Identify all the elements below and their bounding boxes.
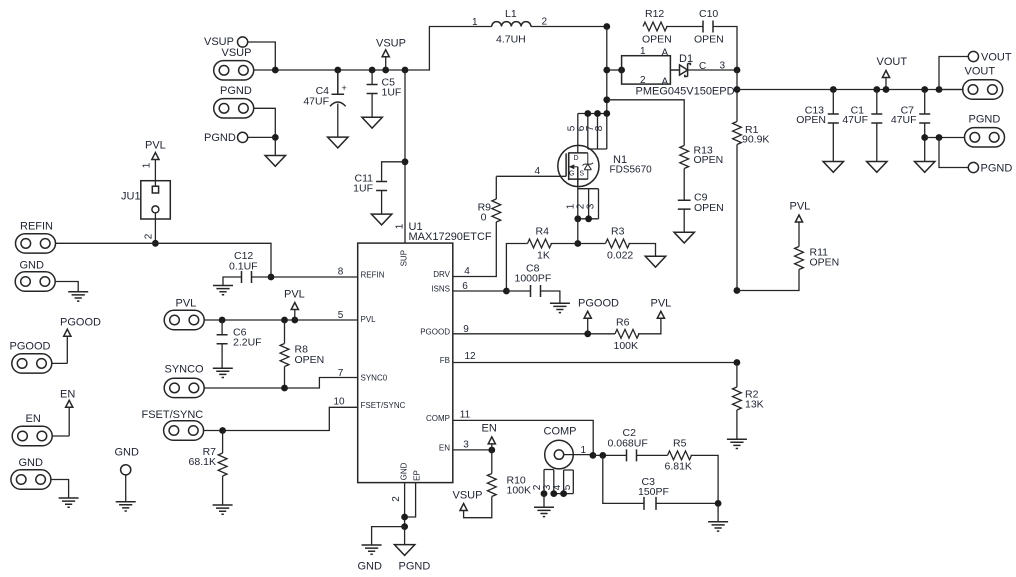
svg-text:0.022: 0.022 bbox=[607, 250, 633, 262]
connector EN (2-pin) bbox=[12, 426, 52, 445]
wire EN net bbox=[453, 449, 492, 451]
junction PGND bbox=[272, 134, 279, 141]
svg-text:ISNS: ISNS bbox=[431, 285, 450, 294]
junction C13 tap bbox=[830, 86, 837, 93]
wire COMP TP pin1 bbox=[564, 454, 593, 456]
svg-text:PGND: PGND bbox=[981, 163, 1013, 175]
wire VOUT rail bbox=[737, 89, 964, 91]
junction JU1 on REFIN bbox=[152, 240, 159, 247]
capacitor C12 bbox=[223, 271, 271, 286]
wire VSUP pin to rail bbox=[248, 42, 276, 70]
svg-text:90.9K: 90.9K bbox=[742, 134, 769, 146]
svg-text:12: 12 bbox=[464, 351, 476, 362]
wire R4 to sense node bbox=[551, 243, 606, 245]
ground C7 bbox=[915, 162, 935, 173]
junction PGOOD arrow tap bbox=[584, 330, 591, 337]
svg-text:EN: EN bbox=[26, 413, 41, 425]
wire PGOOD net bbox=[453, 333, 615, 335]
junction N1 pin2 bbox=[585, 215, 592, 222]
svg-text:OPEN: OPEN bbox=[694, 34, 724, 46]
svg-text:PVL: PVL bbox=[176, 298, 197, 310]
svg-text:1: 1 bbox=[395, 223, 406, 229]
net arrow PVL pin5 bbox=[284, 289, 305, 321]
wire VSUP rail main bbox=[254, 27, 492, 71]
wire JU1 pin2 to REFIN net bbox=[154, 213, 156, 243]
wire C11 to ground bbox=[381, 191, 383, 215]
ground compensation bbox=[708, 522, 728, 531]
svg-text:4: 4 bbox=[535, 166, 541, 177]
junction EP/GND bbox=[401, 514, 408, 521]
junction COMP node a bbox=[590, 452, 597, 459]
junction C4 tap bbox=[334, 67, 341, 74]
svg-text:1: 1 bbox=[142, 162, 153, 168]
svg-text:SYNC0: SYNC0 bbox=[361, 374, 388, 383]
ground GND mid bbox=[116, 502, 136, 511]
svg-text:8: 8 bbox=[594, 125, 605, 131]
ground C11 bbox=[371, 214, 391, 225]
junction VSUP pin tap bbox=[272, 67, 279, 74]
connector VOUT (2-pin) bbox=[963, 80, 1003, 99]
svg-text:GND: GND bbox=[19, 457, 44, 469]
svg-text:1: 1 bbox=[472, 17, 478, 28]
wire to PGND triangle bbox=[404, 527, 406, 545]
junction FB node bbox=[734, 359, 741, 366]
wire R12 to C10 bbox=[666, 26, 703, 28]
wire FSET to R7 bbox=[222, 431, 224, 454]
wire C3 branch bbox=[603, 455, 718, 503]
ground C9 bbox=[674, 232, 694, 243]
svg-text:1: 1 bbox=[581, 445, 587, 456]
junction N1 pin7 bbox=[594, 110, 601, 117]
wire FSET/SYNC net bbox=[204, 407, 358, 430]
svg-text:FDS5670: FDS5670 bbox=[610, 165, 653, 176]
wire C9 to ground bbox=[683, 209, 685, 232]
junction PGND branch on C7 leg bbox=[921, 134, 928, 141]
junction COMP TP gnd c bbox=[560, 490, 567, 497]
capacitor C7 bbox=[919, 90, 930, 162]
net arrow EN left bbox=[52, 389, 75, 437]
svg-text:2: 2 bbox=[391, 496, 402, 502]
junction C3/R5 node bbox=[715, 500, 722, 507]
junction R11 tap bbox=[734, 287, 741, 294]
resistor R9 bbox=[492, 199, 501, 222]
wire to GND earth bbox=[372, 527, 405, 545]
wire R7 to ground bbox=[222, 476, 224, 505]
wire C2 to R5 bbox=[637, 454, 668, 456]
net arrow PVL mid bbox=[651, 298, 672, 319]
resistor R7 bbox=[218, 453, 227, 476]
svg-text:EP: EP bbox=[413, 470, 422, 481]
svg-text:VSUP: VSUP bbox=[376, 38, 406, 50]
svg-text:JU1: JU1 bbox=[121, 191, 141, 203]
capacitor C2 bbox=[627, 449, 637, 461]
svg-text:G: G bbox=[569, 171, 574, 178]
junction COMP TP gnd b bbox=[550, 490, 557, 497]
svg-text:PVL: PVL bbox=[651, 298, 672, 310]
svg-text:OPEN: OPEN bbox=[694, 154, 724, 166]
svg-text:PGND: PGND bbox=[204, 132, 236, 144]
net arrow PVL right bbox=[790, 201, 811, 247]
svg-text:GND: GND bbox=[400, 462, 409, 480]
svg-text:VSUP: VSUP bbox=[453, 490, 483, 502]
svg-text:PGOOD: PGOOD bbox=[578, 298, 619, 310]
wire N1 gate lead bbox=[496, 175, 566, 177]
wire R10 to VSUP arrow bbox=[464, 497, 492, 518]
wire snubber branch bbox=[607, 100, 684, 146]
svg-text:150PF: 150PF bbox=[638, 486, 669, 498]
connector VSUP (2-pin) bbox=[214, 61, 254, 80]
junction N1 pin1 bbox=[574, 215, 581, 222]
svg-text:47UF: 47UF bbox=[891, 114, 917, 126]
svg-text:2: 2 bbox=[144, 233, 155, 239]
capacitor C4 (polarized) bbox=[330, 70, 346, 106]
svg-text:11: 11 bbox=[460, 410, 471, 421]
transistor N1 source pins bbox=[578, 187, 599, 219]
ground C5 bbox=[362, 117, 382, 128]
svg-text:5: 5 bbox=[562, 484, 573, 490]
junction VOUT pin drop bbox=[936, 86, 943, 93]
wire GND pin to ground bbox=[125, 475, 127, 502]
svg-text:S: S bbox=[579, 171, 584, 178]
svg-text:10: 10 bbox=[333, 397, 345, 408]
svg-text:SUP: SUP bbox=[400, 250, 409, 266]
wire EN to R10 bbox=[491, 450, 493, 474]
connector PVL (2-pin) bbox=[164, 310, 204, 329]
wire R8 to SYNCO net bbox=[284, 367, 286, 389]
svg-text:OPEN: OPEN bbox=[295, 354, 325, 366]
net arrow PVL at JU1 bbox=[145, 140, 166, 187]
ground R3 bbox=[645, 256, 665, 267]
junction SW at D1 row bbox=[603, 67, 610, 74]
svg-text:PVL: PVL bbox=[284, 289, 305, 301]
wire R11 to FB node bbox=[737, 270, 799, 291]
svg-text:FSET/SYNC: FSET/SYNC bbox=[361, 401, 406, 410]
resistor R1 bbox=[733, 122, 742, 145]
ground C6 bbox=[213, 368, 233, 377]
svg-text:68.1K: 68.1K bbox=[189, 456, 216, 468]
svg-text:FB: FB bbox=[440, 356, 450, 365]
wire L1 to SW node bbox=[531, 26, 607, 28]
svg-text:GND: GND bbox=[115, 447, 140, 459]
connector SYNCO (2-pin) bbox=[164, 378, 204, 397]
svg-text:R3: R3 bbox=[611, 226, 625, 238]
svg-text:GND: GND bbox=[20, 260, 45, 272]
svg-text:R5: R5 bbox=[673, 438, 687, 450]
wire SW to D1 anode bbox=[607, 69, 622, 71]
svg-text:47UF: 47UF bbox=[303, 96, 329, 108]
svg-text:PGND: PGND bbox=[399, 561, 431, 573]
junction COMP node b bbox=[599, 452, 606, 459]
wire R8 branch bbox=[284, 320, 286, 344]
net arrow PGOOD mid bbox=[578, 298, 619, 334]
junction C6 tap bbox=[219, 317, 226, 324]
svg-text:2.2UF: 2.2UF bbox=[233, 337, 262, 349]
PGND circle pin out bbox=[968, 162, 978, 172]
junction C1 tap bbox=[873, 86, 880, 93]
svg-text:0: 0 bbox=[481, 212, 487, 224]
ground C1 bbox=[867, 162, 887, 173]
ground PGND input bbox=[265, 156, 285, 167]
connector GND upper (2-pin) bbox=[15, 272, 55, 291]
junction EN node bbox=[488, 447, 495, 454]
junction D1 anode bbox=[618, 67, 625, 74]
wire SUP feed vertical bbox=[404, 70, 406, 243]
svg-text:0.1UF: 0.1UF bbox=[229, 261, 258, 273]
svg-text:SYNCO: SYNCO bbox=[165, 364, 205, 376]
inductor L1 bbox=[492, 22, 531, 27]
junction SW node top bbox=[603, 23, 610, 30]
capacitor C9 bbox=[678, 200, 691, 209]
svg-text:REFIN: REFIN bbox=[361, 271, 385, 280]
svg-text:EN: EN bbox=[439, 444, 450, 453]
svg-text:PGOOD: PGOOD bbox=[60, 317, 101, 329]
transistor N1 mosfet symbol bbox=[566, 152, 593, 186]
diode D1 schottky symbol bbox=[670, 64, 690, 77]
svg-text:VOUT: VOUT bbox=[877, 56, 908, 68]
resistor R8 bbox=[280, 344, 289, 367]
junction sense node bbox=[574, 240, 581, 247]
junction SUP drop bbox=[402, 67, 409, 74]
capacitor C10 bbox=[703, 21, 713, 33]
ground COMP TP bbox=[534, 507, 554, 516]
svg-text:COMP: COMP bbox=[426, 414, 450, 423]
COMP test point connector bbox=[545, 440, 574, 469]
resistor R4 bbox=[528, 239, 552, 248]
svg-text:FSET/SYNC: FSET/SYNC bbox=[142, 409, 204, 421]
svg-text:PGOOD: PGOOD bbox=[420, 328, 450, 337]
capacitor C3 bbox=[644, 497, 656, 510]
svg-text:PVL: PVL bbox=[790, 201, 811, 213]
net arrow VSUP bbox=[376, 38, 406, 71]
wire R3 to ground bbox=[629, 244, 656, 257]
wire FB to R2 bbox=[736, 363, 738, 388]
resistor R11 bbox=[795, 247, 804, 270]
wire SYNCO net bbox=[204, 378, 357, 389]
wire PGND pin out bbox=[939, 138, 968, 168]
svg-text:100K: 100K bbox=[614, 340, 639, 352]
ground C12 bbox=[213, 286, 233, 295]
resistor R6 bbox=[615, 329, 639, 338]
wire COMP node bbox=[593, 454, 627, 456]
wire PGND connector to pin bbox=[254, 108, 275, 155]
connector GND lower (2-pin) bbox=[11, 470, 51, 489]
ground GND lower bbox=[59, 498, 79, 507]
svg-text:D: D bbox=[574, 155, 579, 162]
resistor R12 bbox=[643, 22, 667, 31]
svg-text:1UF: 1UF bbox=[353, 183, 373, 195]
wire R2 to ground bbox=[736, 410, 738, 439]
svg-text:100K: 100K bbox=[507, 485, 532, 497]
svg-text:0.068UF: 0.068UF bbox=[608, 438, 648, 450]
svg-text:4: 4 bbox=[464, 266, 470, 277]
ground C4 bbox=[328, 137, 348, 148]
wire COMP TP to ground bbox=[543, 494, 545, 508]
capacitor C6 bbox=[217, 320, 228, 368]
resistor R5 bbox=[668, 451, 692, 460]
wire R6 to PVL arrow bbox=[638, 318, 661, 334]
wire GND lower to ground bbox=[51, 480, 69, 499]
wire C10 to output node bbox=[713, 27, 737, 71]
svg-text:PGND: PGND bbox=[220, 85, 252, 97]
svg-text:3: 3 bbox=[463, 440, 469, 451]
ground GND bottom bbox=[362, 545, 382, 554]
wire SW node vertical bbox=[606, 27, 608, 114]
svg-text:VOUT: VOUT bbox=[965, 66, 996, 78]
GND circle pin mid bbox=[121, 465, 131, 475]
junction output top bbox=[734, 67, 741, 74]
svg-text:VSUP: VSUP bbox=[222, 47, 252, 59]
net arrow EN mid bbox=[482, 423, 497, 451]
PGND circle pin bbox=[238, 132, 248, 142]
svg-text:PVL: PVL bbox=[361, 315, 377, 324]
junction COMP TP gnd a bbox=[541, 490, 548, 497]
svg-text:+: + bbox=[342, 83, 347, 93]
svg-text:8: 8 bbox=[338, 267, 344, 278]
wire FB net bbox=[453, 362, 737, 364]
junction R8 on SYNCO bbox=[281, 385, 288, 392]
junction SW to snubber bbox=[603, 96, 610, 103]
connector PGOOD (2-pin) bbox=[12, 354, 52, 373]
VOUT circle pin bbox=[968, 51, 978, 61]
wire EP pin of U1 bbox=[405, 483, 416, 517]
junction N1 pin6 bbox=[584, 110, 591, 117]
svg-text:GND: GND bbox=[358, 561, 383, 573]
junction R8 tap bbox=[281, 317, 288, 324]
junction output rail bbox=[734, 86, 741, 93]
svg-text:REFIN: REFIN bbox=[20, 221, 53, 233]
IC U1 MAX17290ETCF body bbox=[358, 243, 453, 483]
diode D1 package box bbox=[622, 56, 671, 84]
capacitor C1 bbox=[871, 90, 882, 162]
wire N1 source to sense node bbox=[577, 219, 579, 244]
svg-text:6.81K: 6.81K bbox=[665, 461, 692, 473]
junction C7 tap bbox=[921, 86, 928, 93]
svg-text:47UF: 47UF bbox=[842, 114, 868, 126]
wire VOUT pin bbox=[939, 57, 968, 90]
svg-text:1000PF: 1000PF bbox=[515, 273, 552, 285]
connector REFIN (2-pin) bbox=[16, 234, 56, 253]
junction PGND drop bbox=[936, 134, 943, 141]
capacitor C11 bbox=[376, 182, 387, 191]
net arrow PGOOD left bbox=[52, 317, 101, 364]
svg-text:VOUT: VOUT bbox=[981, 52, 1012, 64]
svg-text:2: 2 bbox=[640, 75, 646, 86]
junction C12 tap bbox=[268, 274, 275, 281]
junction R7 tap bbox=[219, 427, 226, 434]
svg-text:3: 3 bbox=[586, 203, 597, 209]
resistor R3 bbox=[606, 239, 630, 248]
jumper JU1 bbox=[141, 181, 171, 219]
svg-text:PVL: PVL bbox=[145, 140, 166, 152]
wire ISNS net bbox=[453, 290, 507, 292]
net arrow VOUT bbox=[877, 56, 908, 90]
wire GND upper to ground bbox=[55, 282, 78, 292]
ground C13 bbox=[823, 162, 843, 173]
wire PGND branch bbox=[925, 137, 965, 139]
wire PVL net bbox=[204, 319, 357, 321]
svg-text:MAX17290ETCF: MAX17290ETCF bbox=[409, 231, 492, 243]
svg-text:C10: C10 bbox=[699, 8, 718, 20]
svg-text:13K: 13K bbox=[745, 399, 764, 411]
wire R9 gate branch bbox=[453, 177, 497, 277]
svg-text:PGND: PGND bbox=[969, 114, 1001, 126]
svg-text:R6: R6 bbox=[616, 317, 630, 329]
wire R1 to FB node bbox=[736, 145, 738, 291]
ground PGND bottom bbox=[394, 545, 414, 556]
junction VOUT arrow tap bbox=[883, 86, 890, 93]
svg-text:DRV: DRV bbox=[433, 270, 450, 279]
junction GND split bbox=[401, 523, 408, 530]
svg-text:1UF: 1UF bbox=[382, 87, 402, 99]
resistor R10 bbox=[487, 474, 496, 497]
ground R7 bbox=[213, 505, 233, 514]
svg-text:1K: 1K bbox=[537, 250, 550, 262]
wire PGND pin to node bbox=[248, 136, 276, 138]
svg-text:EN: EN bbox=[482, 423, 497, 435]
resistor R13 bbox=[680, 146, 689, 169]
wire GND pin2 of U1 bbox=[404, 483, 406, 527]
capacitor C13 bbox=[828, 90, 839, 162]
svg-text:R12: R12 bbox=[645, 8, 664, 20]
net arrow VSUP bottom bbox=[453, 490, 483, 511]
junction PVL arrow tap bbox=[291, 317, 298, 324]
connector PGND out (2-pin) bbox=[965, 128, 1005, 147]
svg-text:1: 1 bbox=[640, 46, 646, 57]
wire R13 to C9 bbox=[683, 169, 685, 201]
wire R5 to C3 node bbox=[691, 455, 719, 503]
junction VSUP arrow tap bbox=[382, 67, 389, 74]
wire comp gnd stem bbox=[717, 503, 719, 521]
transistor N1 body circle bbox=[558, 145, 599, 186]
wire C4 to ground bbox=[337, 104, 339, 138]
svg-text:OPEN: OPEN bbox=[796, 114, 826, 126]
junction N1 pin8 bbox=[603, 110, 610, 117]
VSUP circle pin bbox=[238, 37, 248, 47]
svg-text:A: A bbox=[662, 48, 669, 59]
svg-text:OPEN: OPEN bbox=[694, 202, 724, 214]
svg-text:OPEN: OPEN bbox=[642, 34, 672, 46]
wire rail to VOUT connector bbox=[939, 89, 963, 91]
wire C11 branch bbox=[382, 162, 405, 182]
connector FSET/SYNC (2-pin) bbox=[164, 421, 204, 440]
connector PGND (2-pin) bbox=[214, 99, 254, 118]
wire ISNS riser to R4 bbox=[506, 244, 527, 292]
junction ISNS node bbox=[503, 288, 510, 295]
capacitor C8 bbox=[506, 285, 560, 303]
ground GND upper bbox=[68, 292, 88, 301]
svg-text:PMEG045V150EPD: PMEG045V150EPD bbox=[636, 86, 735, 98]
wire COMP net bbox=[453, 420, 593, 455]
wire REFIN net bbox=[56, 243, 358, 277]
COMP TP ground pins bbox=[544, 470, 573, 494]
svg-text:OPEN: OPEN bbox=[810, 257, 840, 269]
svg-text:L1: L1 bbox=[505, 8, 517, 20]
junction C11 tap bbox=[402, 158, 409, 165]
transistor N1 drain bus bbox=[578, 114, 607, 153]
svg-text:4.7UH: 4.7UH bbox=[496, 34, 526, 46]
ground R2 bbox=[727, 439, 747, 448]
ground C8 bbox=[550, 303, 570, 312]
resistor R2 bbox=[733, 387, 742, 410]
svg-text:R4: R4 bbox=[536, 226, 550, 238]
capacitor C5 bbox=[367, 70, 378, 117]
svg-text:PGOOD: PGOOD bbox=[10, 341, 51, 353]
svg-text:COMP: COMP bbox=[544, 426, 577, 438]
svg-text:EN: EN bbox=[60, 389, 75, 401]
wire output node vertical bbox=[736, 70, 738, 122]
wire D1 cathode to output bbox=[688, 69, 737, 71]
junction C5 tap bbox=[369, 67, 376, 74]
